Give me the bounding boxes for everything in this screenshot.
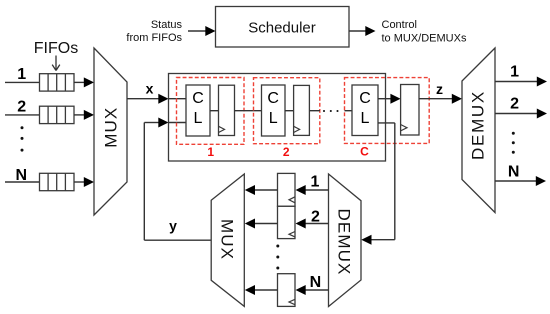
svg-text:1: 1 bbox=[207, 145, 214, 159]
svg-text:z: z bbox=[436, 81, 443, 97]
svg-text:FIFOs: FIFOs bbox=[34, 40, 78, 57]
right output ellipsis dots bbox=[512, 132, 515, 154]
pipeline ellipsis dots bbox=[323, 110, 339, 112]
wire output 2 bbox=[495, 109, 547, 119]
wire regB1-to-mux bbox=[245, 185, 278, 195]
svg-text:MUX: MUX bbox=[101, 107, 120, 148]
wire input 1 bbox=[5, 81, 40, 83]
wire input 2 bbox=[5, 114, 40, 116]
svg-text:y: y bbox=[169, 218, 177, 234]
FIFO F1 bbox=[40, 74, 75, 91]
wire y feedback bbox=[144, 118, 211, 241]
mux U2 input MUX bbox=[94, 48, 127, 215]
wire status-to-scheduler bbox=[188, 26, 216, 36]
wire y-internal bbox=[169, 122, 187, 124]
stage 2 dashed box bbox=[254, 78, 320, 144]
wire x-internal bbox=[169, 98, 187, 100]
wire z bbox=[419, 94, 462, 104]
demux U5 state DEMUX bbox=[329, 174, 362, 307]
wire CL1-to-reg1 bbox=[210, 110, 219, 112]
combinational logic CLC bbox=[352, 85, 378, 136]
svg-text:N: N bbox=[310, 274, 322, 291]
svg-text:2: 2 bbox=[17, 98, 26, 115]
svg-text:C: C bbox=[359, 90, 371, 107]
left input ellipsis dots bbox=[21, 126, 24, 151]
wire demux-to-regB2 bbox=[296, 219, 329, 229]
combinational logic CL2 bbox=[262, 85, 286, 136]
svg-text:x: x bbox=[146, 81, 154, 97]
svg-text:L: L bbox=[269, 110, 278, 127]
wire scheduler-to-control bbox=[349, 26, 376, 36]
wire state feedback bbox=[361, 123, 395, 245]
wire output 1 bbox=[495, 77, 547, 87]
svg-text:from FIFOs: from FIFOs bbox=[126, 32, 182, 44]
wire reg2-out bbox=[309, 110, 320, 112]
svg-text:C: C bbox=[360, 145, 369, 159]
wire regBN-to-mux bbox=[245, 285, 278, 295]
wire demux-to-regBN bbox=[296, 285, 329, 295]
svg-text:1: 1 bbox=[510, 64, 519, 81]
FIFO F2 bbox=[40, 106, 75, 123]
wire demux-to-regB1 bbox=[296, 185, 329, 195]
register R2 bbox=[294, 85, 310, 135]
svg-text:Status: Status bbox=[151, 19, 183, 31]
stage C dashed box bbox=[345, 78, 430, 144]
combinational logic CL1 bbox=[186, 85, 210, 136]
svg-text:N: N bbox=[508, 163, 520, 180]
register RB1 bbox=[278, 173, 296, 206]
register Rout bbox=[401, 85, 419, 136]
svg-text:2: 2 bbox=[510, 96, 519, 113]
node Control to MUX/DEMUXs bbox=[382, 19, 467, 45]
register RBN bbox=[278, 274, 296, 307]
mux U4 state MUX bbox=[211, 174, 244, 306]
svg-text:L: L bbox=[361, 110, 370, 127]
wire output N bbox=[495, 176, 546, 186]
wire input N bbox=[5, 181, 40, 183]
svg-text:to MUX/DEMUXs: to MUX/DEMUXs bbox=[382, 33, 467, 45]
wire FIFO2-to-MUX bbox=[74, 110, 94, 120]
wire reg1-to-CL2 bbox=[235, 110, 262, 112]
svg-text:Control: Control bbox=[382, 19, 417, 31]
svg-text:1: 1 bbox=[17, 66, 26, 83]
svg-text:DEMUX: DEMUX bbox=[335, 209, 354, 276]
wire CL2-to-reg2 bbox=[285, 110, 294, 112]
wire FIFO1-to-MUX bbox=[74, 77, 94, 87]
svg-text:C: C bbox=[267, 90, 279, 107]
wire x bbox=[127, 94, 169, 104]
register RB2 bbox=[278, 206, 296, 238]
svg-text:L: L bbox=[194, 110, 203, 127]
svg-text:DEMUX: DEMUX bbox=[469, 90, 488, 160]
FIFO FN bbox=[40, 173, 75, 190]
state register ellipsis dots bbox=[276, 245, 279, 270]
wire regB2-to-mux bbox=[245, 219, 278, 229]
svg-text:2: 2 bbox=[283, 145, 290, 159]
svg-text:Scheduler: Scheduler bbox=[248, 20, 316, 37]
svg-text:MUX: MUX bbox=[217, 219, 236, 260]
scheduler U1 bbox=[216, 7, 350, 48]
wire dots-to-CLC bbox=[345, 110, 353, 112]
demux U3 output DEMUX bbox=[462, 48, 495, 213]
stage 1 dashed box bbox=[177, 78, 245, 145]
wire FIFON-to-MUX bbox=[74, 177, 94, 187]
register R1 bbox=[219, 85, 235, 135]
node Status from FIFOs bbox=[126, 19, 182, 44]
pipeline block bbox=[169, 74, 386, 162]
node FIFOs label bbox=[34, 40, 78, 71]
svg-text:1: 1 bbox=[311, 174, 320, 191]
svg-text:C: C bbox=[192, 90, 204, 107]
wire CLC-to-regout bbox=[378, 94, 401, 104]
